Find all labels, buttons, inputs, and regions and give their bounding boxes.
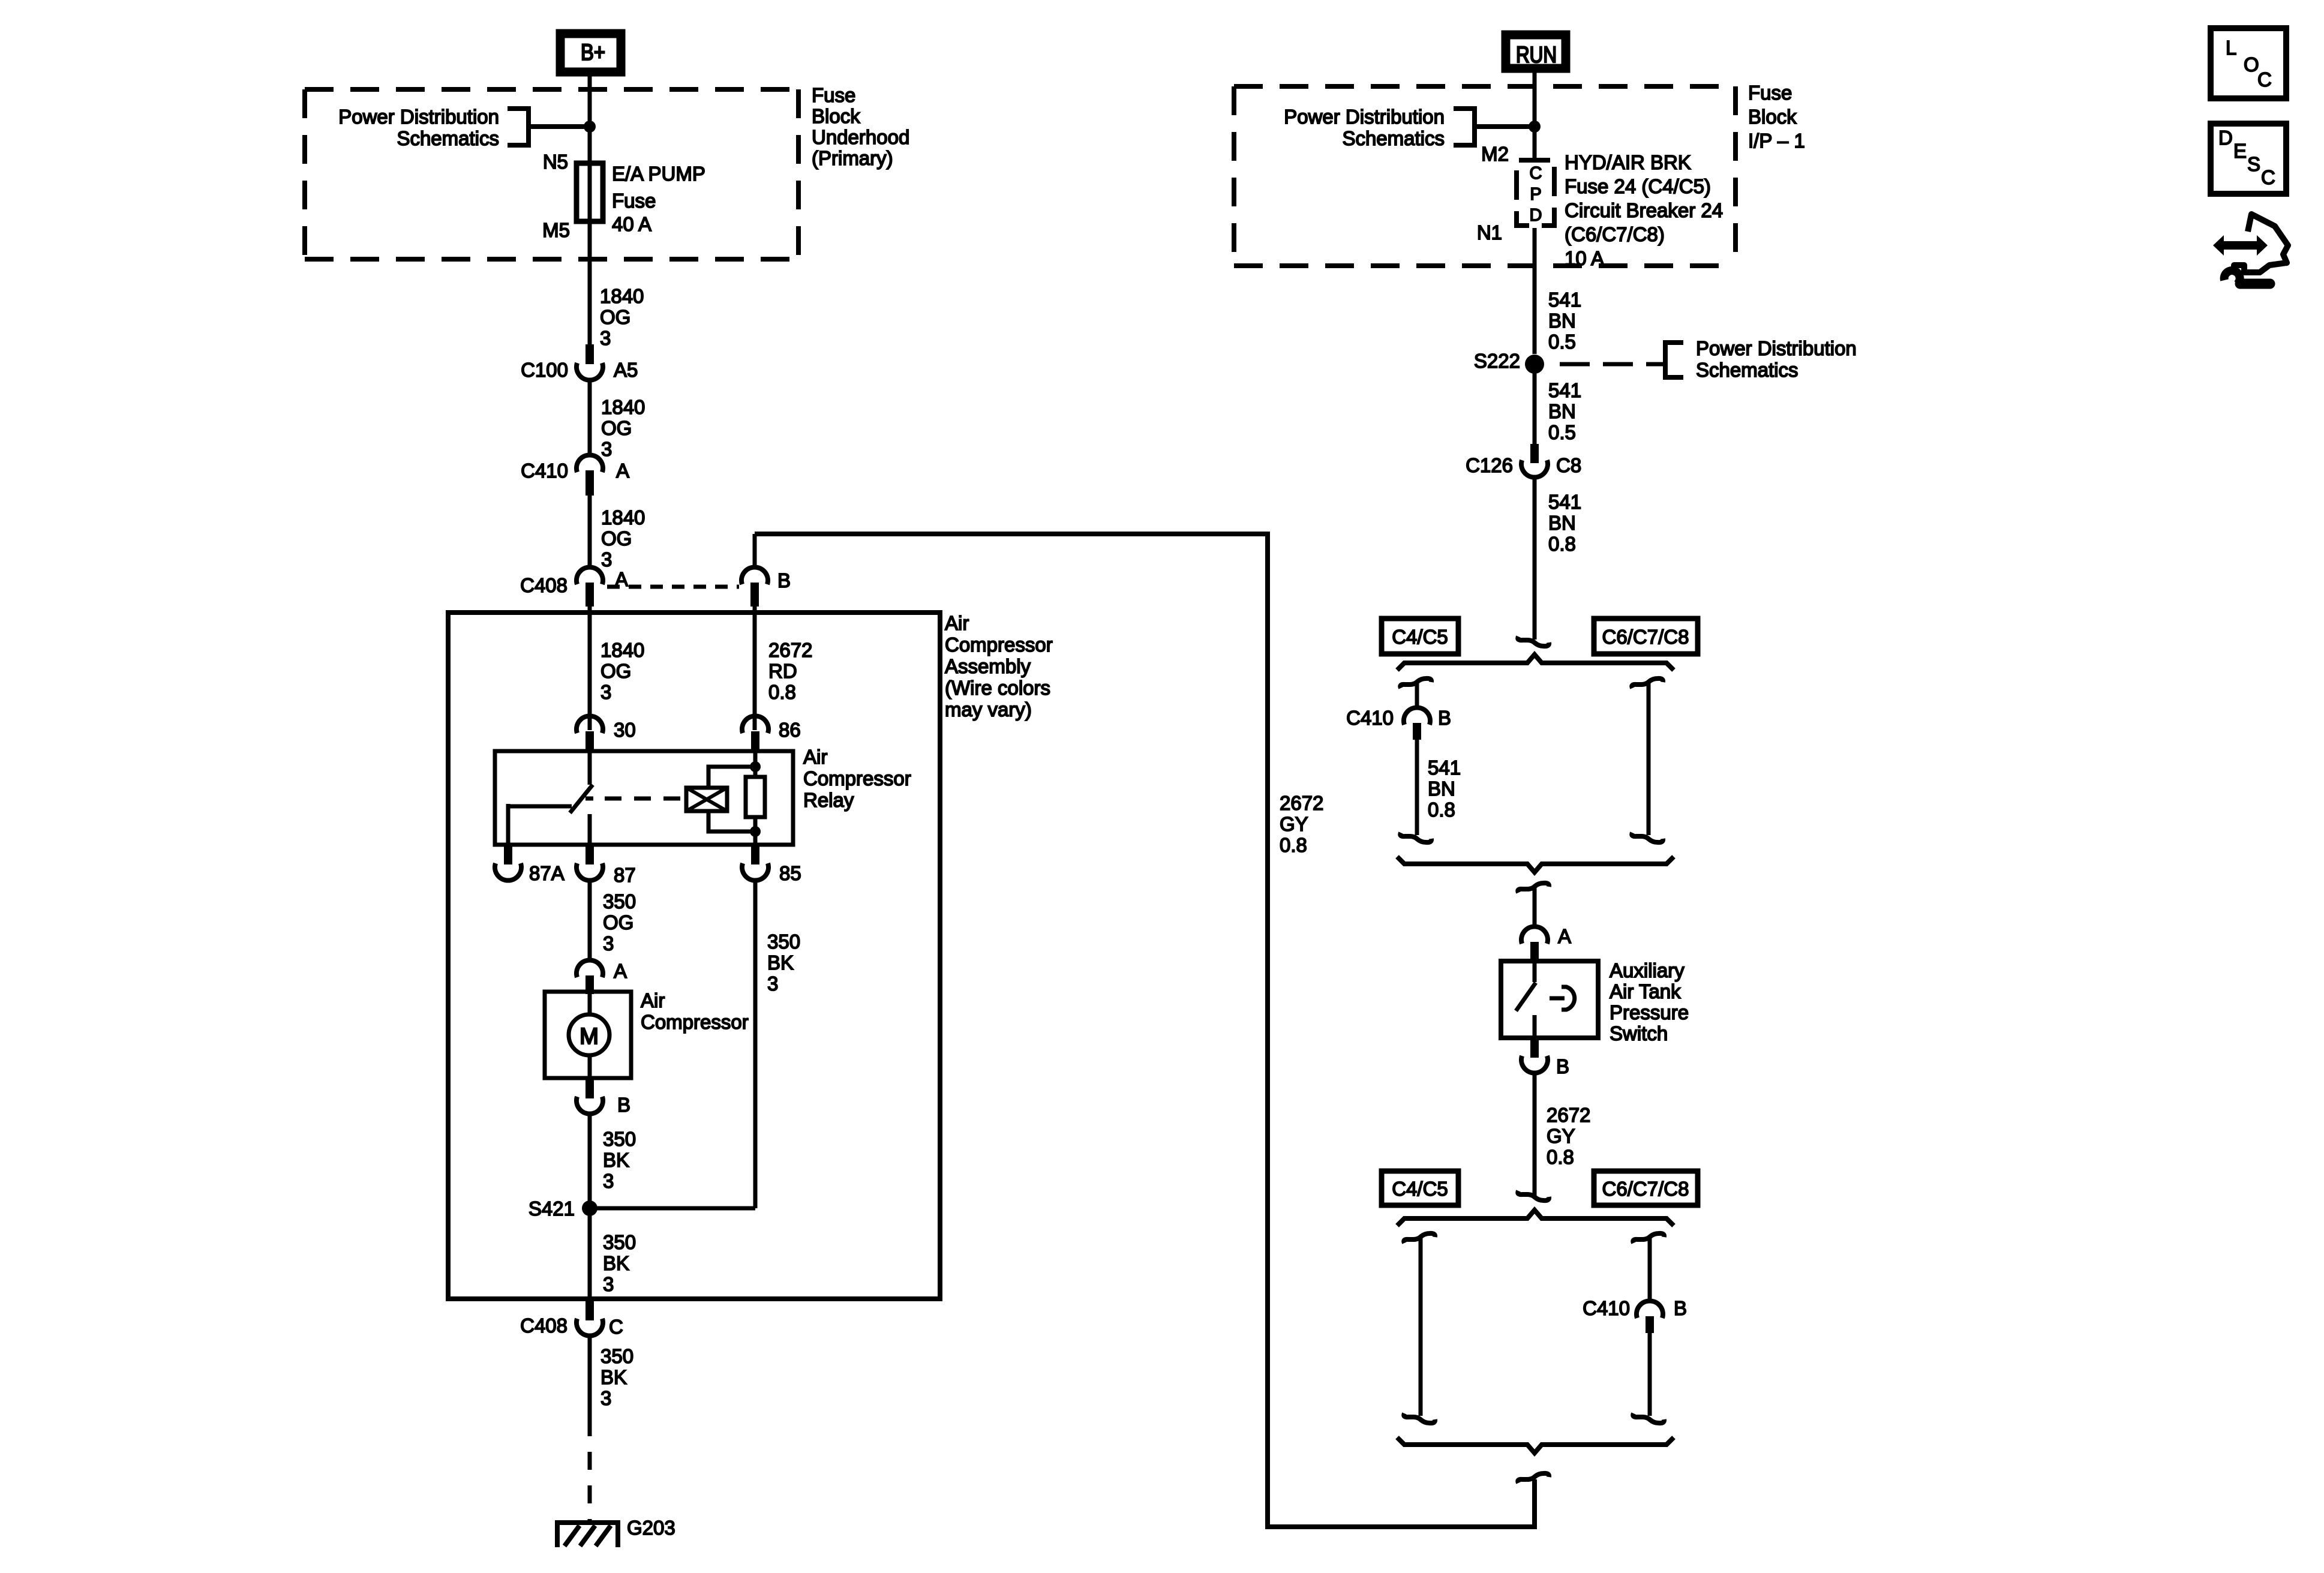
- svg-text:BK: BK: [600, 1366, 627, 1388]
- svg-text:3: 3: [600, 327, 611, 349]
- svg-text:N1: N1: [1477, 221, 1502, 244]
- svg-text:BN: BN: [1548, 310, 1576, 332]
- svg-text:541: 541: [1548, 379, 1581, 401]
- svg-text:Relay: Relay: [803, 789, 854, 811]
- svg-text:(Wire colors: (Wire colors: [945, 677, 1050, 699]
- svg-text:Block: Block: [812, 105, 860, 127]
- svg-text:BK: BK: [603, 1149, 629, 1171]
- svg-text:C: C: [1530, 164, 1542, 183]
- svg-text:87A: 87A: [529, 862, 565, 884]
- svg-text:OG: OG: [601, 417, 632, 439]
- svg-text:I/P – 1: I/P – 1: [1748, 130, 1805, 152]
- svg-text:Pressure: Pressure: [1610, 1001, 1689, 1023]
- svg-text:Fuse: Fuse: [1748, 82, 1792, 104]
- svg-text:0.8: 0.8: [1280, 834, 1307, 856]
- svg-text:Schematics: Schematics: [1696, 359, 1798, 381]
- svg-text:G203: G203: [627, 1517, 675, 1539]
- svg-text:P: P: [1530, 185, 1541, 204]
- svg-text:C6/C7/C8: C6/C7/C8: [1602, 626, 1689, 648]
- svg-text:B: B: [617, 1094, 630, 1116]
- svg-text:2672: 2672: [1280, 792, 1323, 814]
- svg-text:C410: C410: [521, 460, 568, 482]
- svg-text:86: 86: [779, 719, 801, 741]
- svg-text:B: B: [1674, 1297, 1687, 1319]
- svg-text:S: S: [2247, 153, 2260, 175]
- svg-text:BN: BN: [1548, 400, 1576, 422]
- svg-text:Power Distribution: Power Distribution: [1284, 106, 1445, 128]
- svg-text:OG: OG: [600, 660, 631, 682]
- svg-text:RD: RD: [768, 660, 797, 682]
- svg-text:HYD/AIR BRK: HYD/AIR BRK: [1565, 151, 1691, 173]
- svg-text:Schematics: Schematics: [1342, 127, 1445, 149]
- svg-text:1840: 1840: [601, 506, 645, 529]
- svg-text:Schematics: Schematics: [397, 127, 499, 149]
- svg-text:D: D: [1530, 206, 1542, 225]
- svg-text:1840: 1840: [600, 639, 644, 661]
- svg-text:BN: BN: [1428, 778, 1455, 800]
- svg-text:GY: GY: [1547, 1125, 1575, 1147]
- svg-text:C410: C410: [1346, 707, 1394, 729]
- svg-text:C: C: [2257, 68, 2272, 91]
- svg-text:87: 87: [614, 864, 636, 886]
- svg-text:M2: M2: [1481, 143, 1509, 165]
- svg-text:E: E: [2233, 140, 2247, 162]
- svg-text:0.8: 0.8: [1547, 1146, 1574, 1168]
- svg-text:0.8: 0.8: [768, 681, 796, 703]
- svg-text:C126: C126: [1466, 454, 1513, 476]
- svg-text:BK: BK: [603, 1252, 629, 1274]
- svg-text:RUN: RUN: [1516, 43, 1557, 68]
- svg-text:3: 3: [603, 1170, 614, 1192]
- svg-text:(C6/C7/C8): (C6/C7/C8): [1565, 223, 1665, 245]
- svg-text:Air Tank: Air Tank: [1610, 980, 1681, 1002]
- svg-text:3: 3: [601, 438, 612, 460]
- svg-text:GY: GY: [1280, 813, 1308, 835]
- svg-text:B+: B+: [581, 40, 605, 65]
- svg-text:Compressor: Compressor: [803, 767, 911, 789]
- svg-text:S421: S421: [529, 1197, 575, 1220]
- svg-text:350: 350: [603, 1231, 636, 1253]
- svg-text:Power Distribution: Power Distribution: [338, 106, 499, 128]
- svg-text:Fuse: Fuse: [812, 84, 855, 106]
- svg-text:10 A: 10 A: [1565, 247, 1604, 269]
- svg-text:Auxiliary: Auxiliary: [1610, 959, 1685, 981]
- svg-text:0.8: 0.8: [1548, 533, 1576, 555]
- svg-text:Switch: Switch: [1610, 1022, 1668, 1044]
- svg-text:Fuse: Fuse: [612, 190, 656, 212]
- svg-text:Assembly: Assembly: [945, 655, 1031, 677]
- svg-text:1840: 1840: [601, 396, 645, 418]
- svg-text:3: 3: [601, 548, 612, 571]
- svg-text:BK: BK: [767, 951, 794, 974]
- svg-text:C: C: [609, 1316, 623, 1338]
- svg-text:3: 3: [600, 1387, 611, 1409]
- svg-text:D: D: [2218, 127, 2233, 149]
- svg-text:Compressor: Compressor: [641, 1011, 749, 1033]
- svg-text:3: 3: [600, 681, 611, 703]
- svg-text:3: 3: [767, 972, 778, 995]
- svg-text:40 A: 40 A: [612, 213, 651, 235]
- svg-text:A: A: [1558, 925, 1571, 947]
- svg-text:350: 350: [600, 1345, 633, 1367]
- svg-text:BN: BN: [1548, 512, 1576, 534]
- svg-text:N5: N5: [543, 151, 568, 173]
- svg-text:350: 350: [767, 930, 800, 953]
- svg-text:Air: Air: [945, 612, 969, 634]
- svg-text:A5: A5: [614, 359, 638, 381]
- svg-text:O: O: [2244, 53, 2259, 76]
- svg-text:350: 350: [603, 890, 636, 912]
- svg-text:M5: M5: [542, 219, 570, 241]
- svg-text:C410: C410: [1583, 1297, 1630, 1319]
- svg-text:E/A PUMP: E/A PUMP: [612, 163, 705, 185]
- svg-text:C: C: [2261, 166, 2275, 188]
- svg-text:OG: OG: [601, 527, 632, 550]
- svg-text:M: M: [580, 1024, 599, 1049]
- svg-text:0.8: 0.8: [1428, 798, 1455, 821]
- svg-text:2672: 2672: [1547, 1104, 1590, 1126]
- svg-text:Underhood: Underhood: [812, 126, 909, 148]
- svg-text:(Primary): (Primary): [812, 147, 893, 169]
- svg-text:C8: C8: [1556, 454, 1581, 476]
- svg-text:Block: Block: [1748, 106, 1797, 128]
- svg-text:C4/C5: C4/C5: [1392, 1178, 1448, 1200]
- svg-text:3: 3: [603, 1273, 614, 1295]
- svg-text:0.5: 0.5: [1548, 421, 1576, 443]
- svg-text:A: A: [614, 960, 627, 982]
- svg-text:Air: Air: [641, 989, 665, 1011]
- svg-text:Fuse 24 (C4/C5): Fuse 24 (C4/C5): [1565, 175, 1711, 197]
- svg-text:2672: 2672: [768, 639, 812, 661]
- svg-text:350: 350: [603, 1128, 636, 1150]
- svg-text:C100: C100: [521, 359, 568, 381]
- svg-text:Air: Air: [803, 746, 827, 768]
- svg-text:Circuit Breaker 24: Circuit Breaker 24: [1565, 199, 1723, 221]
- svg-text:S222: S222: [1474, 350, 1520, 372]
- svg-text:may vary): may vary): [945, 698, 1032, 721]
- svg-text:C6/C7/C8: C6/C7/C8: [1602, 1178, 1689, 1200]
- svg-text:Compressor: Compressor: [945, 634, 1053, 656]
- svg-text:L: L: [2226, 37, 2236, 59]
- svg-text:1840: 1840: [600, 285, 644, 307]
- svg-text:C408: C408: [520, 1314, 568, 1337]
- svg-text:541: 541: [1428, 757, 1461, 779]
- svg-text:OG: OG: [603, 911, 633, 933]
- svg-text:C408: C408: [520, 574, 568, 596]
- svg-text:3: 3: [603, 932, 614, 954]
- svg-text:0.5: 0.5: [1548, 331, 1576, 353]
- svg-text:Power Distribution: Power Distribution: [1696, 337, 1857, 359]
- svg-text:B: B: [1438, 707, 1451, 729]
- svg-text:C4/C5: C4/C5: [1392, 626, 1448, 648]
- svg-text:B: B: [777, 569, 791, 592]
- svg-text:85: 85: [779, 862, 801, 884]
- svg-text:OG: OG: [600, 306, 630, 328]
- svg-text:541: 541: [1548, 289, 1581, 311]
- svg-text:B: B: [1556, 1055, 1569, 1077]
- svg-text:A: A: [616, 460, 629, 482]
- svg-text:30: 30: [614, 719, 636, 741]
- svg-text:541: 541: [1548, 491, 1581, 513]
